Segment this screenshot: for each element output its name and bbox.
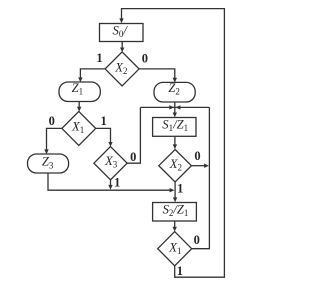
svg-text:1: 1	[100, 114, 106, 128]
svg-text:0: 0	[194, 233, 200, 247]
svg-text:1: 1	[96, 51, 102, 65]
svg-text:0: 0	[130, 150, 136, 164]
svg-text:0: 0	[49, 114, 55, 128]
svg-text:0: 0	[142, 51, 148, 65]
svg-text:1: 1	[114, 176, 120, 190]
svg-text:Z1: Z1	[72, 81, 84, 97]
svg-text:X1: X1	[168, 240, 181, 256]
svg-text:X2: X2	[114, 60, 127, 76]
svg-text:S2/Z1: S2/Z1	[163, 203, 189, 219]
svg-text:X3: X3	[104, 154, 118, 170]
svg-text:0: 0	[194, 149, 200, 163]
svg-text:X2: X2	[169, 157, 182, 173]
svg-text:1: 1	[177, 264, 183, 278]
svg-text:Z2: Z2	[168, 81, 180, 97]
svg-text:S1/Z1: S1/Z1	[162, 117, 188, 133]
svg-text:X1: X1	[71, 119, 84, 135]
svg-text:Z3: Z3	[42, 155, 54, 171]
svg-text:1: 1	[177, 182, 183, 196]
svg-text:S0/: S0/	[113, 24, 129, 40]
